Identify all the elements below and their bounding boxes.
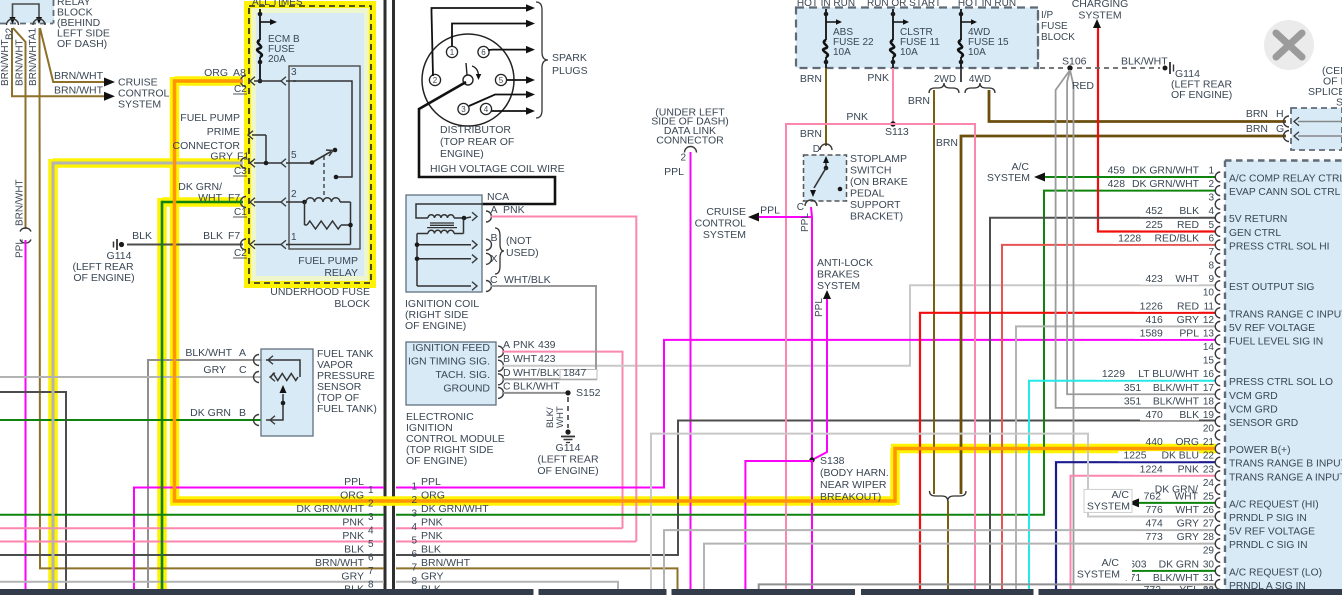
svg-text:B2: B2 [5,27,16,40]
svg-text:DK GRN: DK GRN [1159,559,1199,570]
relay contact dot upper [333,148,338,153]
wire 4WD fuse tail [960,68,962,82]
wire PNK row4 right [396,527,623,529]
VCM connector block [1225,161,1342,590]
svg-text:ORG: ORG [421,490,445,502]
svg-text:CHARGING: CHARGING [1072,0,1129,10]
svg-text:GRY: GRY [1177,315,1199,326]
svg-text:LT BLU/WHT: LT BLU/WHT [1138,369,1199,380]
svg-text:C: C [239,364,247,376]
relay contact dot lower [334,175,339,180]
stoplamp pin C arc [805,200,817,206]
arrow to charging system [1093,19,1101,28]
svg-text:WHT: WHT [1175,505,1199,516]
svg-text:423: 423 [538,353,556,365]
svg-text:DK GRN/WHT: DK GRN/WHT [1132,166,1200,177]
svg-text:F1: F1 [237,151,249,163]
svg-text:ENGINE): ENGINE) [440,148,484,160]
svg-text:225: 225 [1145,220,1163,231]
junction dot fuse top [258,12,263,17]
stoplamp switch box [804,155,847,201]
svg-text:5: 5 [368,539,374,550]
fuse element f3 [958,40,963,57]
svg-text:PNK: PNK [421,517,443,529]
wire BLK G114 to relay pin F7 [127,244,243,246]
svg-text:11: 11 [1204,301,1215,312]
svg-text:19: 19 [1203,410,1215,421]
wire WHT S106 b3 [1070,70,1074,584]
not used brace [495,228,504,274]
svg-text:C3: C3 [234,166,247,177]
pin 2 entry [241,197,246,208]
svg-text:BLOCK: BLOCK [334,298,370,310]
svg-text:10A: 10A [968,47,986,58]
label AC system pin25 [1084,489,1132,512]
connector arc B2 [7,19,19,25]
VCM connector rows [1215,172,1220,182]
svg-text:416: 416 [1145,315,1163,326]
svg-text:10A: 10A [900,47,918,58]
distributor towers [446,46,457,57]
svg-text:5: 5 [411,536,417,547]
fuse arrow stub f3 [961,21,972,23]
svg-text:C: C [503,381,511,393]
wire GRY sensor C [0,376,261,378]
svg-text:BRN/WHT: BRN/WHT [28,39,39,86]
svg-text:ALL TIMES: ALL TIMES [252,0,303,8]
svg-text:5V RETURN: 5V RETURN [1229,214,1287,225]
pin 1 entry [241,239,246,250]
svg-text:SYSTEM: SYSTEM [703,229,746,241]
wire PNK ECM A [502,352,623,529]
coil pin B wire [417,244,471,246]
svg-text:4: 4 [1208,206,1214,217]
wire DK GRN/WHT row3 right [396,191,1216,515]
svg-text:BLK: BLK [1179,206,1199,217]
svg-text:PPL: PPL [760,205,780,217]
fuse element f2 [890,40,895,57]
svg-text:BLK/WHT: BLK/WHT [185,347,232,359]
wire BRN ABS fuse to stoplamp [825,68,827,146]
svg-text:C: C [490,274,498,286]
svg-text:12: 12 [1203,315,1215,326]
svg-text:BLK: BLK [344,544,364,556]
svg-text:A/C: A/C [1111,489,1129,501]
svg-text:PPL: PPL [15,239,26,258]
svg-text:PPL: PPL [814,298,825,317]
splice S138 [809,457,814,462]
svg-text:WHT: WHT [198,192,222,204]
fuse arrow stub f2 [893,21,904,23]
sensor resistor [271,374,298,381]
svg-text:31: 31 [1203,573,1215,584]
svg-text:CONNECTOR: CONNECTOR [656,135,724,147]
svg-text:1589: 1589 [1140,328,1163,339]
distributor rotor [463,75,473,85]
svg-text:BRN/WHT: BRN/WHT [421,557,471,569]
wire PNK coil A [491,217,636,542]
junction dot fuse bottom [258,60,263,65]
svg-text:ORG: ORG [204,67,228,79]
svg-text:S138: S138 [820,455,845,467]
svg-text:BRN: BRN [1246,108,1268,120]
svg-text:DK BLU: DK BLU [1161,451,1199,462]
svg-text:2: 2 [433,76,438,85]
fuse wire f1 [825,9,827,40]
svg-text:STOPLAMP: STOPLAMP [850,153,907,165]
svg-text:X: X [491,253,498,265]
highlight halos (traced circuit) [53,158,243,168]
splice S106 [1067,65,1072,70]
svg-text:BRN: BRN [936,137,958,149]
svg-text:FUEL PUMP: FUEL PUMP [180,112,240,124]
spark plug wire 4 [507,79,526,81]
svg-text:BRACKET): BRACKET) [850,211,903,223]
wire PPL abs [812,295,827,460]
connector arc A1 [33,19,45,25]
svg-text:1: 1 [1208,166,1214,177]
spark plug wire 6 [492,110,527,112]
pin 3 entry [241,76,246,87]
svg-text:FUEL PUMP: FUEL PUMP [298,255,358,267]
data link connector arc [685,147,697,153]
wire DK GRN 603 pin30 [1128,570,1216,572]
svg-text:SYSTEM: SYSTEM [1078,10,1121,22]
svg-text:5V REF VOLTAGE: 5V REF VOLTAGE [1229,527,1315,538]
svg-text:351: 351 [1124,396,1142,407]
svg-text:8: 8 [368,579,374,590]
svg-text:BRN/WHT: BRN/WHT [0,39,11,86]
stoplamp arrow down [810,190,816,197]
high voltage coil wire [419,82,555,204]
wire WHT 776 pin26 [651,434,1216,589]
svg-text:A/C: A/C [1101,557,1119,569]
svg-text:3: 3 [368,512,374,523]
svg-text:TRANS RANGE C INPUT: TRANS RANGE C INPUT [1229,309,1342,320]
wire PPL row1 left [134,488,384,590]
svg-text:F7: F7 [228,230,240,242]
fuse ECM B 20A [257,40,262,57]
spark plug wire 3 [488,49,526,51]
fuse arrow stub f1 [826,21,837,23]
svg-text:24: 24 [1203,478,1215,489]
ground G114 right symbol [565,429,570,434]
wire BLK/WHT ECM C to S152 [502,392,566,394]
spark plug wire 5 [469,95,526,107]
svg-text:PEDAL: PEDAL [850,188,885,200]
svg-text:RELAY: RELAY [324,267,358,279]
svg-text:PNK: PNK [513,339,535,351]
svg-text:5: 5 [291,150,297,161]
svg-text:FUSE: FUSE [1041,21,1068,32]
wire RED 1226 pin11 [920,313,1216,589]
svg-text:I/P: I/P [1041,10,1054,21]
IP dashed right stub [1037,10,1039,68]
ground G114 right top symbol [1163,66,1168,71]
wire DK GRN 762 pin25 [1138,502,1216,504]
svg-text:PRNDL P SIG IN: PRNDL P SIG IN [1229,513,1307,524]
svg-text:1229: 1229 [1102,369,1125,380]
svg-text:OF ENGINE): OF ENGINE) [73,272,134,284]
svg-text:C1: C1 [234,207,247,218]
svg-text:S152: S152 [576,387,601,399]
relay block box (top-left) [0,0,54,23]
svg-text:BRN/WHT: BRN/WHT [15,39,26,86]
wire PNK CLSTR fuse to S113 [892,68,894,124]
fuse wire f2 [892,9,894,40]
coil secondary left leg [417,233,428,235]
arrow to cruise control 1 [104,78,115,87]
svg-text:18: 18 [1203,396,1215,407]
ignition control module box [406,342,496,405]
svg-text:PPL: PPL [664,166,684,178]
svg-text:IGN TIMING SIG.: IGN TIMING SIG. [408,356,490,368]
svg-text:G: G [1276,123,1284,135]
svg-text:773: 773 [1145,532,1163,543]
wire BLK left edge [0,392,66,589]
svg-text:4: 4 [368,526,374,537]
distributor circle [422,34,514,126]
svg-text:BLK/WHT: BLK/WHT [1153,383,1200,394]
svg-text:A/C COMP RELAY CTRL: A/C COMP RELAY CTRL [1229,174,1342,185]
svg-text:BRN: BRN [1246,123,1268,135]
svg-text:FUEL TANK): FUEL TANK) [317,403,377,415]
svg-text:6: 6 [411,549,417,560]
svg-text:PRESS CTRL SOL LO: PRESS CTRL SOL LO [1229,377,1333,388]
svg-text:BRN: BRN [800,73,822,85]
wire BLK/WHT 771 pin31 [759,584,1216,589]
svg-text:A: A [503,339,510,351]
svg-text:10A: 10A [833,47,851,58]
svg-text:WHT: WHT [555,406,566,428]
svg-text:OF DASH): OF DASH) [57,38,107,50]
svg-text:RED: RED [1072,80,1095,92]
close button [1264,20,1314,70]
relay resistor dot [348,223,353,228]
svg-text:29: 29 [1203,546,1215,557]
splice S113 [890,121,895,126]
sensor pin arcs [254,355,259,366]
svg-text:BREAKOUT): BREAKOUT) [820,491,881,503]
ground G114 left symbol [116,239,118,250]
svg-text:1228: 1228 [1118,233,1141,244]
dashed BLK/WHT to ground [567,397,569,428]
wire DK GRN EVAP drop [1043,191,1045,515]
spark plugs brace [536,2,548,118]
wire WHT/BLK coil C to ECM D [491,286,596,379]
svg-text:23: 23 [1203,464,1215,475]
svg-text:PRNDL C SIG IN: PRNDL C SIG IN [1229,540,1308,551]
svg-text:SYSTEM: SYSTEM [987,172,1030,184]
stoplamp pin D arc [820,144,832,150]
dashed BLK/WHT S106 left [1040,67,1063,69]
svg-text:SPARK: SPARK [552,52,587,64]
svg-text:1225: 1225 [1123,451,1146,462]
svg-text:PPL: PPL [344,476,364,488]
wire PNK row5 right [396,541,636,543]
svg-text:BLK/WHT: BLK/WHT [513,381,560,393]
svg-text:2: 2 [411,495,417,506]
pin 5 entry [241,158,246,169]
svg-text:GEN CTRL: GEN CTRL [1229,228,1281,239]
svg-text:2WD: 2WD [934,74,956,85]
svg-text:13: 13 [1203,328,1215,339]
svg-text:TACH. SIG.: TACH. SIG. [435,369,490,381]
svg-text:PPL: PPL [800,213,811,232]
svg-text:GRY: GRY [1177,519,1199,530]
svg-text:2: 2 [291,189,297,200]
wire BLK/WHT S106 b1 [1056,70,1216,408]
splice pack block [1291,108,1342,150]
wire PPL to cruise [758,216,812,218]
wire GRY core [53,162,243,165]
wire GRY row8 right [396,582,618,589]
wire DK GRN/WHT core [162,201,243,204]
arrow stub top [260,21,272,23]
svg-text:776: 776 [1145,505,1163,516]
svg-text:BLK: BLK [132,230,152,242]
svg-text:4WD: 4WD [969,74,991,85]
svg-text:H: H [1276,108,1284,120]
svg-text:(LEFT REAR: (LEFT REAR [537,454,598,466]
wire PPL left vertical [25,240,27,589]
svg-text:SWITCH: SWITCH [850,165,891,177]
svg-text:2: 2 [1208,179,1214,190]
brace 2WD [929,83,959,93]
label DK GRN/WHT 24-25 [1140,482,1202,498]
svg-text:6: 6 [1208,233,1214,244]
svg-text:PNK: PNK [867,72,889,84]
wire PPL data link [690,152,692,589]
svg-text:CRUISE: CRUISE [706,206,746,218]
svg-text:3: 3 [411,509,417,520]
svg-text:459: 459 [1108,166,1126,177]
svg-text:16: 16 [1203,369,1215,380]
wire BLK row6 right [396,421,1216,556]
ignition coil box [406,195,482,292]
svg-text:GRY: GRY [1177,532,1199,543]
svg-text:SYSTEM: SYSTEM [1077,568,1120,580]
coil pin X wire [417,258,471,260]
svg-text:VCM GRD: VCM GRD [1229,404,1278,415]
svg-text:A/C REQUEST (LO): A/C REQUEST (LO) [1229,567,1322,578]
relay pivot dot [310,160,315,165]
svg-text:PPL: PPL [421,476,441,488]
relay resistor [307,221,341,229]
wire DK BLU 1225 pin22 [1056,462,1216,589]
wire ECM B fuse feed [259,9,261,40]
svg-text:CONTROL: CONTROL [695,218,746,230]
coil pin arcs [486,211,492,222]
relay coil left leg [304,202,306,225]
svg-text:GROUND: GROUND [443,383,490,395]
wire BRN/WHT row7 right [396,568,678,589]
wire break symbol PPL [20,228,31,232]
svg-text:PRESS CTRL SOL HI: PRESS CTRL SOL HI [1229,241,1330,252]
arrow to ABS [823,290,831,299]
svg-text:(TOP REAR OF: (TOP REAR OF [440,136,514,148]
svg-text:BLK: BLK [421,544,441,556]
wire WHT ECM B [502,285,1216,365]
svg-text:1: 1 [450,48,455,57]
wire DK GRN pin1 AC [1044,176,1216,178]
wire BLK row6 left [0,554,384,556]
svg-text:GRY: GRY [341,570,364,582]
sensor pin A arc [268,356,273,365]
wire LT BLU/WHT 1229 pin16 [1029,381,1216,589]
relay coil inductor [306,198,340,202]
wire ORG core [175,81,385,501]
svg-text:439: 439 [538,339,556,351]
fuse wire f3 [960,9,962,40]
svg-text:8: 8 [1208,261,1214,272]
svg-text:PLUGS: PLUGS [552,65,588,77]
svg-text:EVAP CANN SOL CTRL: EVAP CANN SOL CTRL [1229,187,1341,198]
svg-text:S: S [1336,97,1342,109]
svg-text:1: 1 [411,482,417,493]
svg-text:S113: S113 [885,126,909,138]
wire BRN 4WD [989,90,1286,122]
wire GRY 416 pin12 [1016,326,1216,589]
svg-text:PNK: PNK [846,111,868,123]
svg-text:25: 25 [1203,491,1215,502]
svg-text:470: 470 [1145,410,1163,421]
svg-text:5V REF VOLTAGE: 5V REF VOLTAGE [1229,323,1315,334]
wire DK GRN/WHT row3 left [0,514,384,516]
svg-text:OF ENGINE): OF ENGINE) [406,455,467,467]
wire RED/BLK 1228 pin6 [1002,245,1216,589]
svg-text:17: 17 [1203,383,1215,394]
svg-text:OF ENGINE): OF ENGINE) [405,320,466,332]
svg-text:9: 9 [1208,274,1214,285]
wire GRY 773 pin28 [704,544,1216,589]
svg-text:GRY: GRY [203,364,226,376]
svg-text:4: 4 [484,105,489,114]
svg-text:7: 7 [1208,247,1214,258]
svg-text:1224: 1224 [1140,464,1163,475]
svg-text:474: 474 [1145,519,1163,530]
svg-text:VCM GRD: VCM GRD [1229,391,1278,402]
svg-text:IGNITION FEED: IGNITION FEED [412,342,490,354]
svg-text:PNK: PNK [1178,464,1199,475]
svg-text:BRN/WHT: BRN/WHT [54,70,104,82]
svg-text:RED: RED [1177,301,1199,312]
wire BRN/WHT from B2 down [12,28,107,96]
relay dashed link [323,156,325,197]
svg-text:1226: 1226 [1140,301,1163,312]
stoplamp extra dot [838,187,843,192]
svg-text:ORG: ORG [1175,437,1199,448]
wire GRY 474 pin27 [664,530,1216,589]
svg-text:10: 10 [1203,288,1215,299]
wire PNK row4 left [0,527,384,529]
wire PNK S113 right [893,124,975,589]
svg-text:3: 3 [1208,193,1214,204]
svg-text:NCA: NCA [487,191,509,203]
svg-text:BLK/WHT: BLK/WHT [1121,56,1168,68]
svg-text:ORG: ORG [340,490,364,502]
svg-text:A/C REQUEST (HI): A/C REQUEST (HI) [1229,499,1319,510]
svg-text:PNK: PNK [342,530,364,542]
wire PPL S138 down [811,460,813,589]
wire DK GRN sensor B [0,419,261,421]
svg-text:1: 1 [291,232,297,243]
svg-text:1847: 1847 [563,367,587,379]
sensor wiper arrow [280,385,287,393]
svg-text:GRY: GRY [421,570,444,582]
svg-text:6: 6 [481,48,486,57]
wire BLK 452 pin4 [990,218,1216,589]
